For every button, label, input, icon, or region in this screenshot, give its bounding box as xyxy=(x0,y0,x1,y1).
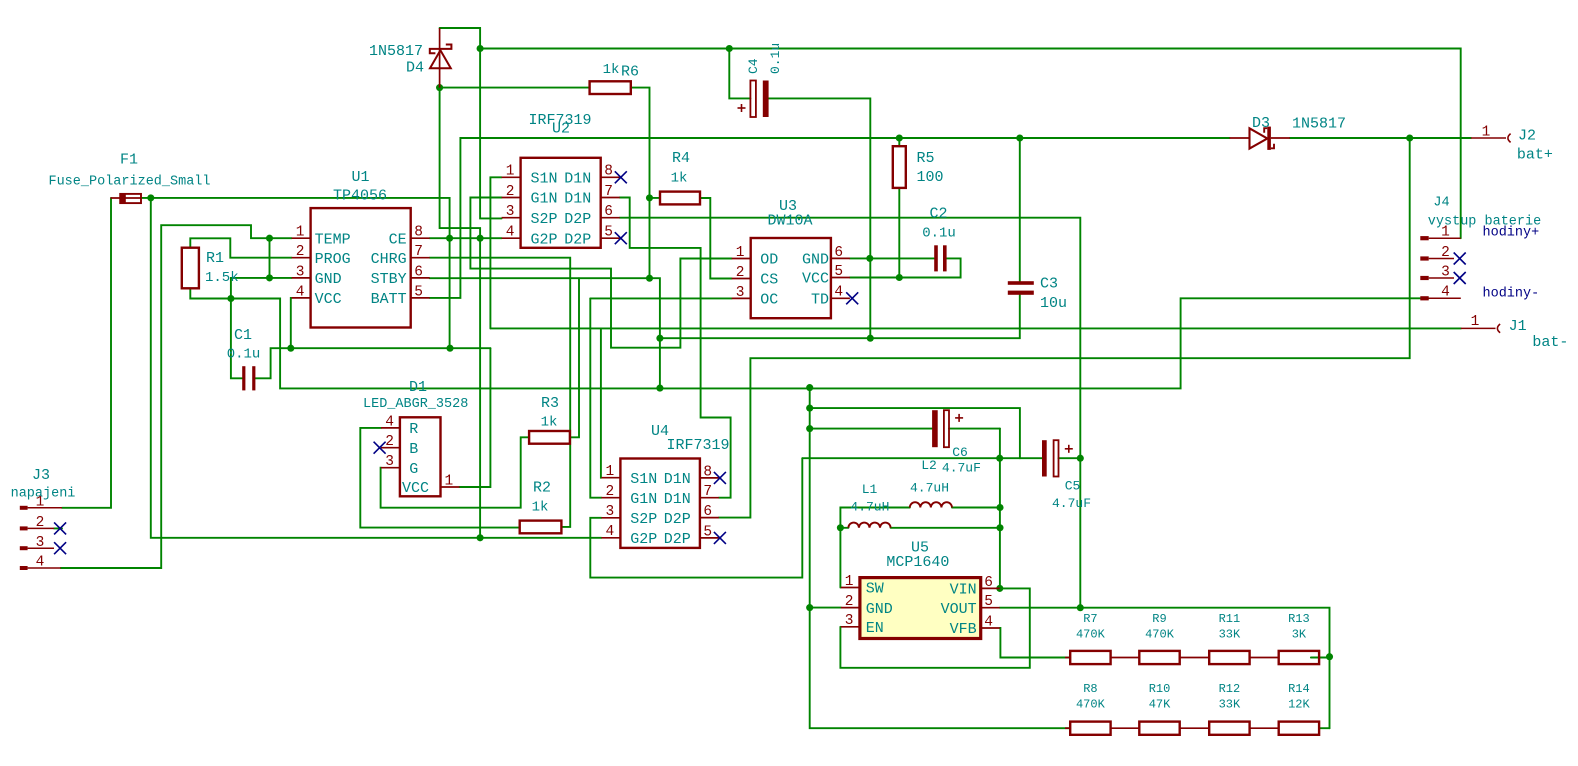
svg-text:S1N: S1N xyxy=(531,171,558,188)
svg-text:VCC: VCC xyxy=(315,291,342,308)
svg-text:napajeni: napajeni xyxy=(11,487,76,502)
svg-text:D3: D3 xyxy=(1252,115,1270,132)
svg-text:F1: F1 xyxy=(120,152,138,169)
svg-text:1: 1 xyxy=(1471,314,1480,330)
svg-text:5: 5 xyxy=(703,524,712,540)
svg-text:R14: R14 xyxy=(1288,682,1310,696)
svg-text:GND: GND xyxy=(802,252,829,269)
svg-text:R: R xyxy=(409,421,418,438)
svg-text:C4: C4 xyxy=(746,58,761,74)
svg-text:R8: R8 xyxy=(1083,682,1097,696)
svg-text:3: 3 xyxy=(296,264,305,280)
svg-text:3: 3 xyxy=(736,285,745,301)
svg-text:1k: 1k xyxy=(541,415,558,431)
svg-text:C2: C2 xyxy=(929,206,947,223)
svg-text:VIN: VIN xyxy=(950,582,977,599)
svg-text:470K: 470K xyxy=(1076,628,1106,642)
svg-text:4: 4 xyxy=(984,614,993,630)
svg-text:D1N: D1N xyxy=(664,471,691,488)
svg-text:0.1u: 0.1u xyxy=(227,347,261,363)
svg-text:2: 2 xyxy=(605,484,614,500)
svg-text:G2P: G2P xyxy=(531,231,558,248)
svg-text:B: B xyxy=(409,441,418,458)
svg-text:TD: TD xyxy=(811,292,829,309)
svg-text:L2: L2 xyxy=(921,458,937,473)
svg-text:U2: U2 xyxy=(552,121,570,138)
svg-text:4: 4 xyxy=(296,284,305,300)
svg-text:6: 6 xyxy=(604,204,613,220)
svg-text:1: 1 xyxy=(605,464,614,480)
svg-text:VOUT: VOUT xyxy=(941,601,977,618)
svg-text:5: 5 xyxy=(834,264,843,280)
svg-text:8: 8 xyxy=(604,164,613,180)
svg-text:1k: 1k xyxy=(671,171,688,187)
svg-text:R4: R4 xyxy=(672,150,690,167)
svg-text:1k: 1k xyxy=(603,62,620,78)
svg-text:C6: C6 xyxy=(952,445,968,460)
svg-text:U1: U1 xyxy=(351,169,369,186)
svg-text:2: 2 xyxy=(736,265,745,281)
svg-text:4.7uF: 4.7uF xyxy=(942,461,981,476)
svg-text:D1N: D1N xyxy=(564,191,591,208)
svg-text:D2P: D2P xyxy=(564,211,591,228)
svg-text:1: 1 xyxy=(845,574,854,590)
svg-text:47K: 47K xyxy=(1149,698,1171,712)
svg-text:10u: 10u xyxy=(1040,295,1067,312)
svg-text:2: 2 xyxy=(36,515,45,531)
svg-text:3: 3 xyxy=(385,454,394,470)
svg-text:D1N: D1N xyxy=(564,171,591,188)
svg-text:D4: D4 xyxy=(406,60,424,77)
svg-text:S2P: S2P xyxy=(630,511,657,528)
svg-text:R10: R10 xyxy=(1149,682,1171,696)
svg-text:7: 7 xyxy=(604,184,613,200)
svg-text:4.7uF: 4.7uF xyxy=(1052,496,1091,511)
svg-text:4: 4 xyxy=(1441,285,1450,301)
svg-text:VCC: VCC xyxy=(802,271,829,288)
svg-text:G: G xyxy=(409,461,418,478)
svg-text:VFB: VFB xyxy=(950,621,977,638)
svg-text:2: 2 xyxy=(385,434,394,450)
svg-text:GND: GND xyxy=(866,601,893,618)
svg-text:4.7uH: 4.7uH xyxy=(850,499,889,514)
svg-text:C1: C1 xyxy=(234,327,252,344)
svg-text:6: 6 xyxy=(834,245,843,261)
svg-text:4: 4 xyxy=(385,414,394,430)
svg-text:1k: 1k xyxy=(532,499,549,515)
svg-text:CE: CE xyxy=(389,231,407,248)
svg-text:OC: OC xyxy=(760,292,778,309)
svg-text:R1: R1 xyxy=(206,250,224,267)
svg-text:1: 1 xyxy=(736,245,745,261)
svg-text:D2P: D2P xyxy=(664,511,691,528)
svg-text:hodiny+: hodiny+ xyxy=(1483,226,1540,241)
svg-text:1: 1 xyxy=(506,164,515,180)
svg-text:R5: R5 xyxy=(917,150,935,167)
svg-text:STBY: STBY xyxy=(371,271,407,288)
svg-text:470K: 470K xyxy=(1076,698,1106,712)
svg-text:G1N: G1N xyxy=(630,491,657,508)
svg-text:4.7uH: 4.7uH xyxy=(910,481,949,496)
svg-text:GND: GND xyxy=(315,271,342,288)
svg-text:33K: 33K xyxy=(1219,628,1241,642)
svg-text:4: 4 xyxy=(36,555,45,571)
svg-text:J1: J1 xyxy=(1509,318,1527,335)
svg-text:33K: 33K xyxy=(1219,698,1241,712)
svg-text:D1N: D1N xyxy=(664,491,691,508)
svg-text:3: 3 xyxy=(36,535,45,551)
svg-text:0.1u: 0.1u xyxy=(922,226,956,242)
svg-text:4: 4 xyxy=(834,285,843,301)
svg-text:D1: D1 xyxy=(409,379,427,396)
svg-text:470K: 470K xyxy=(1145,628,1175,642)
svg-text:BATT: BATT xyxy=(371,291,407,308)
svg-text:1N5817: 1N5817 xyxy=(1292,116,1346,133)
svg-text:1: 1 xyxy=(445,473,454,489)
svg-text:3K: 3K xyxy=(1292,628,1307,642)
svg-text:R6: R6 xyxy=(621,64,639,81)
svg-text:2: 2 xyxy=(845,594,854,610)
svg-text:7: 7 xyxy=(703,484,712,500)
svg-text:R3: R3 xyxy=(541,395,559,412)
svg-text:8: 8 xyxy=(703,464,712,480)
svg-text:R11: R11 xyxy=(1219,612,1241,626)
svg-text:LED_ABGR_3528: LED_ABGR_3528 xyxy=(363,397,468,412)
svg-text:3: 3 xyxy=(506,204,515,220)
svg-text:R13: R13 xyxy=(1288,612,1310,626)
svg-text:EN: EN xyxy=(866,620,884,637)
svg-text:TP4056: TP4056 xyxy=(333,188,387,205)
svg-text:5: 5 xyxy=(604,225,613,241)
svg-text:R7: R7 xyxy=(1083,612,1097,626)
svg-text:7: 7 xyxy=(414,244,423,260)
svg-text:3: 3 xyxy=(845,613,854,629)
svg-text:0.1u: 0.1u xyxy=(768,43,783,74)
svg-text:1: 1 xyxy=(296,225,305,241)
svg-text:CS: CS xyxy=(760,272,778,289)
svg-text:S1N: S1N xyxy=(630,471,657,488)
svg-text:R2: R2 xyxy=(533,480,551,497)
svg-text:TEMP: TEMP xyxy=(315,231,351,248)
svg-text:D2P: D2P xyxy=(564,231,591,248)
svg-text:2: 2 xyxy=(506,184,515,200)
svg-text:1N5817: 1N5817 xyxy=(369,43,423,60)
svg-text:bat+: bat+ xyxy=(1517,147,1553,164)
svg-text:4: 4 xyxy=(506,225,515,241)
svg-text:D2P: D2P xyxy=(664,531,691,548)
svg-text:C5: C5 xyxy=(1065,479,1081,494)
svg-text:L1: L1 xyxy=(862,482,878,497)
svg-text:J3: J3 xyxy=(32,467,50,484)
svg-text:G1N: G1N xyxy=(531,191,558,208)
svg-text:2: 2 xyxy=(1441,245,1450,261)
svg-text:R9: R9 xyxy=(1152,612,1166,626)
svg-text:5: 5 xyxy=(414,284,423,300)
svg-text:6: 6 xyxy=(703,504,712,520)
svg-text:4: 4 xyxy=(605,524,614,540)
svg-text:DW10A: DW10A xyxy=(767,213,812,230)
svg-text:PROG: PROG xyxy=(315,251,351,268)
svg-text:bat-: bat- xyxy=(1532,334,1568,351)
svg-text:CHRG: CHRG xyxy=(371,251,407,268)
svg-text:1.5k: 1.5k xyxy=(205,270,239,286)
svg-text:Fuse_Polarized_Small: Fuse_Polarized_Small xyxy=(48,175,210,190)
svg-text:3: 3 xyxy=(605,504,614,520)
svg-text:5: 5 xyxy=(984,594,993,610)
svg-text:IRF7319: IRF7319 xyxy=(666,437,729,454)
svg-text:OD: OD xyxy=(760,252,778,269)
svg-text:MCP1640: MCP1640 xyxy=(886,554,949,571)
svg-text:S2P: S2P xyxy=(531,211,558,228)
svg-text:SW: SW xyxy=(866,581,884,598)
svg-text:J4: J4 xyxy=(1433,196,1449,211)
svg-text:6: 6 xyxy=(414,264,423,280)
svg-text:3: 3 xyxy=(1441,264,1450,280)
svg-text:2: 2 xyxy=(296,244,305,260)
svg-text:100: 100 xyxy=(917,169,944,186)
svg-text:1: 1 xyxy=(1482,125,1491,141)
svg-text:6: 6 xyxy=(984,575,993,591)
svg-text:8: 8 xyxy=(414,225,423,241)
svg-text:C3: C3 xyxy=(1040,276,1058,293)
svg-text:G2P: G2P xyxy=(630,531,657,548)
svg-text:R12: R12 xyxy=(1219,682,1241,696)
svg-text:J2: J2 xyxy=(1518,128,1536,145)
svg-text:VCC: VCC xyxy=(402,480,429,497)
svg-text:12K: 12K xyxy=(1288,698,1310,712)
svg-text:hodiny-: hodiny- xyxy=(1483,286,1540,301)
